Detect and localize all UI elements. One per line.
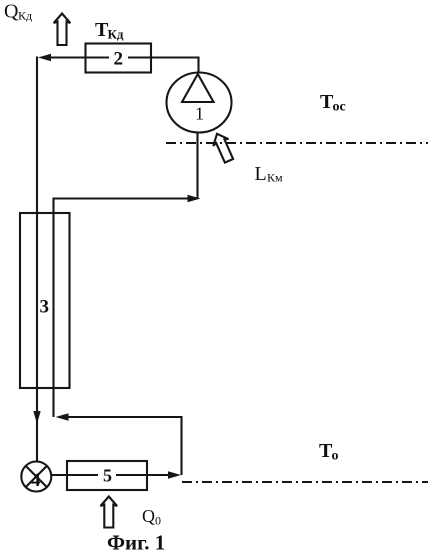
svg-text:5: 5 bbox=[103, 466, 112, 486]
condenser rect 2 bbox=[86, 44, 152, 73]
svg-text:Кд: Кд bbox=[108, 27, 124, 42]
white gap for digit 5 bbox=[98, 465, 116, 485]
arrowhead left at condenser outlet corner bbox=[38, 54, 51, 61]
svg-text:Кд: Кд bbox=[18, 9, 32, 23]
arrowhead right at evaporator outlet corner bbox=[168, 471, 181, 478]
wire: evaporator line y=475 from valve 4 through evaporator 5 bbox=[52, 474, 169, 476]
svg-text:Q: Q bbox=[142, 506, 155, 526]
compressor circle U1 bbox=[167, 73, 232, 133]
ambient boundary dash-dot line Toc bbox=[166, 142, 428, 144]
svg-text:3: 3 bbox=[40, 297, 50, 318]
cold space boundary dash-dot line To bbox=[182, 481, 428, 483]
svg-text:Км: Км bbox=[267, 171, 283, 185]
wire: compressor discharge drop x=198.5 from y=57.5 to circle top bbox=[197, 57, 199, 74]
block arrow Q_0 (heat in, up) bbox=[101, 497, 118, 528]
arrowhead left into exchanger inner tube bbox=[56, 413, 69, 420]
wire: compressor suction drop from circle bottom to junction bbox=[196, 133, 198, 199]
heat exchanger rect 3 bbox=[20, 213, 70, 388]
wire: vertical liquid line x=37 from corner down through exchanger 3 to valve 4 bbox=[36, 57, 38, 462]
svg-text:1: 1 bbox=[195, 104, 204, 124]
compressor triangle bbox=[182, 74, 214, 102]
wire: evaporator outlet riser x=181.5 bbox=[180, 416, 182, 475]
block arrow Q_Kd (heat out, up) bbox=[54, 14, 71, 46]
svg-text:2: 2 bbox=[114, 49, 124, 70]
svg-text:Q: Q bbox=[4, 1, 19, 23]
throttle valve X diagonals bbox=[26, 466, 47, 487]
wire: suction horizontal y=198.5 from exchanger inner tube to compressor junction bbox=[54, 197, 190, 199]
evaporator rect 5 bbox=[67, 461, 147, 490]
white gap for digit 2 bbox=[109, 47, 128, 67]
wire: horizontal y=417 from evaporator riser to exchanger tube bbox=[65, 416, 182, 418]
svg-text:о: о bbox=[332, 449, 339, 464]
svg-text:L: L bbox=[255, 163, 267, 185]
arrowhead down on liquid line above valve 4 bbox=[33, 411, 40, 424]
arrowhead right into compressor junction bbox=[188, 195, 201, 202]
block arrow L_Km (work in, angled) bbox=[209, 130, 236, 164]
wire: condenser outlet, horizontal y=57.5 from compressor drop to left arrow bbox=[49, 56, 199, 58]
throttle valve circle 4 bbox=[21, 462, 51, 492]
wire: exchanger inner tube x=52 from y=198.5 down to y=417 bbox=[52, 198, 54, 418]
svg-text:0: 0 bbox=[155, 514, 161, 528]
svg-text:ос: ос bbox=[333, 100, 346, 115]
svg-text:4: 4 bbox=[31, 470, 41, 491]
svg-text:Фиг. 1: Фиг. 1 bbox=[107, 531, 165, 555]
